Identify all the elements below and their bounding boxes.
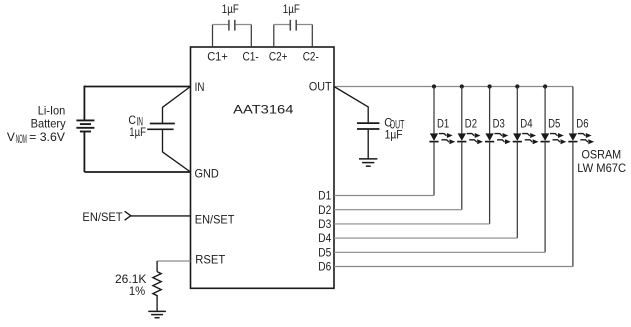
svg-text:Li-Ion: Li-Ion [38, 103, 66, 117]
wire D1 return [334, 195, 434, 197]
capacitor C1 flying 1uF plates [229, 20, 235, 31]
wire battery left top vertical [83, 86, 85, 121]
svg-text:D3: D3 [318, 217, 331, 231]
wire battery top to IN [84, 86, 190, 88]
LED D6 [568, 87, 594, 267]
wire diagonal IN to CIN top [163, 87, 191, 108]
svg-text:RSET: RSET [195, 253, 226, 267]
capacitor CIN plates [147, 124, 175, 130]
wire C1- vertical [250, 25, 252, 48]
svg-text:1%: 1% [129, 284, 146, 298]
svg-text:= 3.6V: = 3.6V [29, 130, 65, 144]
svg-text:V: V [7, 130, 15, 144]
LED D5 [541, 87, 567, 253]
wire flying cap C1 top right [235, 24, 252, 26]
svg-text:C2-: C2- [303, 50, 319, 64]
svg-text:1µF: 1µF [222, 2, 239, 16]
svg-text:D3: D3 [493, 117, 505, 131]
input chevron arrow [125, 211, 131, 220]
node junction dot 2 [460, 84, 464, 88]
svg-text:C1+: C1+ [207, 50, 228, 64]
wire COUT top vertical [367, 106, 369, 122]
node junction dot 4 [515, 84, 519, 88]
node junction dot 5 [543, 84, 547, 88]
wire battery left bottom vertical [83, 132, 85, 173]
svg-text:D2: D2 [318, 203, 331, 217]
svg-text:C1-: C1- [243, 50, 259, 64]
svg-text:D5: D5 [318, 245, 331, 259]
wire flying cap C1 top left [213, 24, 229, 26]
svg-text:AAT3164: AAT3164 [233, 103, 294, 117]
svg-text:EN/SET: EN/SET [82, 210, 123, 224]
svg-text:OUT: OUT [309, 79, 332, 93]
svg-text:D1: D1 [437, 117, 449, 131]
resistor RSET 26.1K zigzag [153, 272, 161, 298]
node junction dot 1 [432, 84, 436, 88]
battery BT1 Li-Ion plates [76, 120, 94, 131]
svg-text:EN/SET: EN/SET [195, 212, 235, 226]
svg-text:D2: D2 [465, 117, 477, 131]
node junction dot 3 [488, 84, 492, 88]
svg-text:1µF: 1µF [129, 125, 146, 139]
wire battery bottom to GND [84, 171, 190, 173]
svg-text:LW M67C: LW M67C [577, 161, 626, 175]
svg-text:Battery: Battery [31, 116, 66, 130]
wire CIN top vertical [162, 107, 164, 123]
svg-text:D4: D4 [318, 231, 331, 245]
svg-text:OSRAM: OSRAM [582, 148, 622, 162]
svg-text:D1: D1 [318, 189, 331, 203]
svg-text:1µF: 1µF [283, 2, 300, 16]
wire flying cap C2 top right [296, 24, 312, 26]
wire C2- vertical [311, 25, 313, 48]
LED D3 [485, 87, 511, 224]
capacitor C2 flying 1uF plates [290, 20, 296, 31]
wire resistor to ground [156, 298, 158, 311]
wire RSET vertical to resistor [156, 261, 158, 272]
svg-text:D5: D5 [548, 117, 560, 131]
svg-text:NOM: NOM [16, 132, 27, 146]
LED D1 [429, 87, 455, 196]
wire D2 return [334, 209, 462, 211]
op-amp U1 AAT3164 IC body [191, 47, 335, 288]
wire flying cap C2 top left [274, 24, 291, 26]
svg-text:IN: IN [195, 80, 205, 94]
wire RSET pin horizontal [157, 260, 190, 262]
LED D2 [457, 87, 483, 210]
svg-text:D6: D6 [318, 260, 331, 274]
wire EN/SET to pin [131, 215, 191, 217]
LED D4 [513, 87, 539, 239]
wire COUT bottom vertical [367, 130, 369, 159]
ground symbol below RSET [148, 311, 166, 317]
wire D3 return [334, 223, 490, 225]
wire D4 return [334, 237, 517, 239]
svg-text:1µF: 1µF [385, 128, 403, 142]
wire D5 return [334, 251, 545, 253]
wire D6 return [334, 266, 573, 268]
wire diagonal CIN bottom to GND [163, 152, 191, 172]
capacitor COUT plates [357, 123, 379, 129]
wire C1+ vertical [212, 25, 214, 48]
svg-text:GND: GND [195, 166, 220, 180]
svg-text:D6: D6 [576, 117, 588, 131]
ground symbol below COUT [359, 159, 377, 166]
wire CIN bottom vertical [162, 130, 164, 152]
svg-text:D4: D4 [520, 117, 532, 131]
wire OUT bus horizontal [334, 86, 573, 88]
wire diagonal OUT to COUT [334, 87, 368, 107]
svg-text:C2+: C2+ [269, 50, 288, 64]
wire C2+ vertical [273, 25, 275, 48]
